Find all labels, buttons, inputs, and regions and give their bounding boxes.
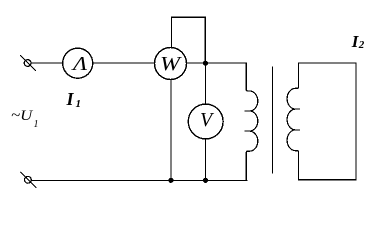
label ~U1 (supply voltage): [11, 108, 32, 125]
junction node B (wattmeter/bottom rail): [168, 178, 173, 183]
wire wattmeter bottom to bottom rail: [170, 80, 172, 181]
node A (junction dot): [203, 61, 208, 66]
transformer T1 secondary winding L2: [287, 63, 299, 180]
wire node A to voltmeter: [204, 63, 206, 104]
voltmeter PV1: [188, 104, 223, 139]
label I1 (primary current): [67, 89, 74, 110]
label I2 (secondary current): [352, 32, 359, 52]
primary winding cusp ticks: [245, 111, 249, 131]
transformer T1 core: [272, 67, 274, 173]
terminal X2 (bottom input): [21, 172, 36, 187]
wire bottom rail: [31, 179, 247, 181]
junction node C (voltmeter/bottom rail): [203, 178, 208, 183]
label V (voltmeter letter): [200, 109, 212, 132]
transformer T1 primary winding L1: [246, 63, 257, 180]
wire X1 to ammeter: [31, 62, 63, 64]
ammeter PA1: [63, 48, 93, 78]
secondary winding cusp ticks: [295, 109, 299, 130]
terminal X1 (top input): [21, 56, 36, 71]
label I2 subscript 2: [359, 39, 365, 51]
wire ammeter to wattmeter: [93, 62, 155, 64]
label Λ (ammeter letter): [73, 53, 87, 76]
wire secondary load loop (right rectangle): [299, 63, 356, 180]
wire voltmeter to bottom rail: [205, 139, 207, 181]
label W (wattmeter letter): [160, 53, 180, 76]
wire node A to transformer primary: [205, 62, 246, 64]
label I1 subscript 1: [76, 98, 82, 110]
wattmeter PW1: [155, 48, 187, 80]
wire wattmeter to node A: [187, 62, 206, 64]
label ~U1 subscript 1: [34, 119, 39, 130]
wire wattmeter voltage-coil loop (top): [171, 17, 205, 63]
